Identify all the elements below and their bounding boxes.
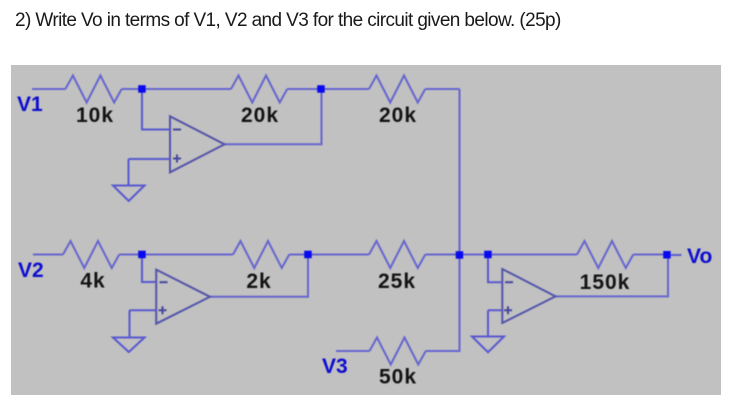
svg-text:V3: V3 <box>322 355 348 378</box>
svg-text:20k: 20k <box>241 104 279 127</box>
svg-text:10k: 10k <box>76 104 114 127</box>
svg-text:V2: V2 <box>18 259 44 282</box>
svg-text:Vo: Vo <box>687 245 712 268</box>
svg-text:150k: 150k <box>580 271 631 294</box>
svg-text:20k: 20k <box>379 104 417 127</box>
svg-text:4k: 4k <box>80 270 105 293</box>
svg-text:50k: 50k <box>379 366 417 389</box>
svg-text:V1: V1 <box>17 93 43 116</box>
svg-text:25k: 25k <box>378 270 416 293</box>
svg-text:2k: 2k <box>246 270 271 293</box>
